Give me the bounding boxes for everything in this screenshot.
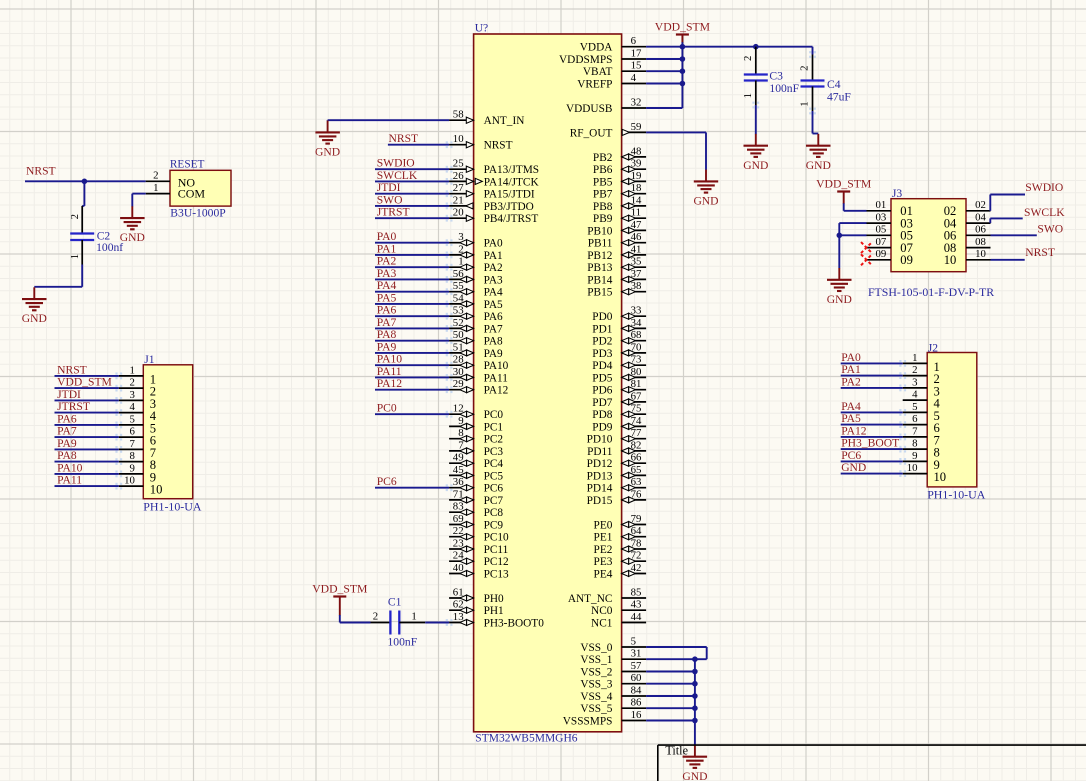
svg-text:PC3: PC3 bbox=[484, 446, 504, 458]
svg-text:GND: GND bbox=[841, 461, 866, 474]
wire PA7 to U? bbox=[375, 327, 449, 329]
svg-text:VREFP: VREFP bbox=[577, 79, 612, 91]
svg-text:PB10: PB10 bbox=[587, 225, 612, 237]
svg-text:02: 02 bbox=[975, 199, 986, 211]
svg-text:PC0: PC0 bbox=[377, 402, 397, 415]
wire U? VDD pin row 2 to rail bbox=[646, 70, 682, 72]
svg-text:44: 44 bbox=[631, 611, 642, 623]
svg-text:PB4/JTRST: PB4/JTRST bbox=[484, 213, 539, 225]
U? pin 78 PE2 bbox=[594, 537, 647, 556]
svg-text:70: 70 bbox=[631, 341, 642, 353]
wire PA9 to J1 pin 7 bbox=[55, 448, 119, 450]
J2 pin 9 bbox=[903, 450, 940, 472]
svg-text:14: 14 bbox=[631, 194, 642, 206]
svg-text:STM32WB5MMGH6: STM32WB5MMGH6 bbox=[475, 733, 577, 745]
svg-text:34: 34 bbox=[631, 317, 642, 329]
wire JTRST to J1 pin 4 bbox=[55, 412, 119, 414]
junction VDD rail row 0 bbox=[680, 44, 686, 50]
connection markers on U? left pins bbox=[446, 141, 453, 626]
U? pin 71 PC7 bbox=[449, 488, 503, 507]
U? pin 84 VSS_4 bbox=[580, 684, 646, 703]
wire GND to J2 pin 10 bbox=[841, 473, 903, 475]
connector J1 body PH1-10-UA bbox=[143, 365, 192, 499]
wire VDD rail to C3/C4 bbox=[682, 46, 812, 48]
svg-text:FTSH-105-01-F-DV-P-TR: FTSH-105-01-F-DV-P-TR bbox=[868, 285, 994, 299]
J3 pin 08 bbox=[944, 236, 991, 255]
svg-text:PB11: PB11 bbox=[588, 238, 613, 250]
svg-text:49: 49 bbox=[453, 452, 464, 464]
U? pin 14 PB8 bbox=[593, 194, 646, 213]
svg-text:ANT_NC: ANT_NC bbox=[568, 593, 613, 605]
svg-text:PD3: PD3 bbox=[592, 348, 612, 360]
svg-text:PA1: PA1 bbox=[377, 242, 397, 255]
svg-text:04: 04 bbox=[975, 212, 986, 224]
U? pin 73 PD4 bbox=[592, 354, 646, 373]
svg-text:5: 5 bbox=[631, 635, 636, 647]
wire VDD_STM to J3 pin 01 bbox=[844, 210, 867, 212]
svg-text:C3: C3 bbox=[769, 70, 783, 83]
svg-text:PA7: PA7 bbox=[377, 316, 397, 329]
wire VSS row pin to bus (row 52) bbox=[646, 683, 695, 685]
svg-text:61: 61 bbox=[453, 586, 464, 598]
svg-text:64: 64 bbox=[631, 525, 642, 537]
svg-text:VDD_STM: VDD_STM bbox=[57, 376, 112, 389]
U? pin 42 PE4 bbox=[594, 562, 647, 581]
svg-text:J2: J2 bbox=[928, 341, 939, 354]
J1 pin 5 bbox=[119, 413, 156, 435]
U? pin 47 PB10 bbox=[587, 219, 646, 238]
svg-text:PA9: PA9 bbox=[377, 340, 397, 353]
J1 pin 10 bbox=[119, 475, 163, 497]
svg-text:PD10: PD10 bbox=[587, 434, 613, 446]
junction at J3 pin 05 bbox=[837, 233, 843, 239]
svg-text:10: 10 bbox=[944, 253, 957, 267]
U? pin 36 PC6 bbox=[449, 476, 503, 495]
wire PA7 to J1 pin 6 bbox=[55, 436, 119, 438]
connector J3 body FTSH-105-01-F-DV-P-TR bbox=[891, 199, 966, 272]
svg-text:PA8: PA8 bbox=[484, 336, 503, 348]
svg-text:PB7: PB7 bbox=[593, 189, 613, 201]
svg-text:VSS_4: VSS_4 bbox=[580, 691, 612, 703]
svg-text:PC6: PC6 bbox=[377, 475, 397, 488]
wire PA0 to U? bbox=[375, 242, 449, 244]
power port VDD_STM at J3 bbox=[816, 178, 872, 211]
U? pin 46 PB11 bbox=[588, 231, 646, 250]
svg-text:PC0: PC0 bbox=[484, 409, 504, 421]
svg-text:PA13/JTMS: PA13/JTMS bbox=[484, 164, 539, 176]
svg-text:PB8: PB8 bbox=[593, 201, 613, 213]
svg-text:PB6: PB6 bbox=[593, 164, 613, 176]
svg-text:PD1: PD1 bbox=[592, 323, 612, 335]
svg-text:09: 09 bbox=[876, 248, 887, 260]
IC U? STM32WB5MMGH6 body bbox=[474, 34, 622, 732]
junction VSS bus row 54 bbox=[692, 705, 698, 711]
svg-text:4: 4 bbox=[631, 72, 637, 84]
capacitor C4 pin 1 lead bbox=[812, 87, 814, 112]
svg-text:56: 56 bbox=[453, 268, 464, 280]
U? pin 59 RF_OUT bbox=[570, 121, 646, 140]
svg-text:GND: GND bbox=[743, 159, 768, 172]
svg-text:13: 13 bbox=[453, 611, 464, 623]
svg-text:23: 23 bbox=[453, 537, 464, 549]
svg-text:PA12: PA12 bbox=[484, 385, 509, 397]
U? pin 28 PA10 bbox=[449, 354, 509, 373]
U? pin 81 PD6 bbox=[592, 378, 646, 397]
svg-text:17: 17 bbox=[631, 47, 642, 59]
U? pin 8 PC2 bbox=[449, 427, 503, 446]
U? pin 76 PD15 bbox=[587, 488, 646, 507]
svg-text:82: 82 bbox=[631, 439, 642, 451]
svg-text:PH3_BOOT: PH3_BOOT bbox=[841, 437, 899, 450]
U? pin 65 PD13 bbox=[587, 464, 646, 483]
svg-text:26: 26 bbox=[453, 170, 464, 182]
ground at switch COM bbox=[120, 206, 145, 244]
svg-text:1: 1 bbox=[69, 254, 81, 259]
U? pin 12 PC0 bbox=[449, 403, 503, 422]
svg-text:18: 18 bbox=[631, 182, 642, 194]
wire SWDIO to U? bbox=[375, 168, 449, 170]
U? pin 13 PH3-BOOT0 bbox=[449, 611, 544, 630]
wire VSS_0 (pin 5) loop bbox=[646, 647, 707, 659]
svg-text:PD13: PD13 bbox=[587, 470, 613, 482]
junction VSS bus row 55 bbox=[692, 718, 698, 724]
svg-text:PC4: PC4 bbox=[484, 458, 504, 470]
svg-text:3: 3 bbox=[912, 376, 917, 388]
svg-text:3: 3 bbox=[129, 389, 134, 401]
svg-text:C1: C1 bbox=[388, 595, 402, 608]
svg-text:PC5: PC5 bbox=[484, 470, 504, 482]
connector J2 body PH1-10-UA bbox=[927, 353, 977, 487]
junction VDD rail row 3 bbox=[680, 81, 686, 87]
svg-text:PA6: PA6 bbox=[377, 304, 397, 317]
junction VSS bus row 52 bbox=[692, 681, 698, 687]
U? pin 83 PC8 bbox=[449, 501, 503, 520]
svg-text:6: 6 bbox=[129, 426, 135, 438]
U? pin 63 PD14 bbox=[587, 476, 646, 495]
svg-text:PB14: PB14 bbox=[587, 274, 612, 286]
J2 pin 8 bbox=[903, 438, 940, 460]
wire VDD rail corner down to C4 bbox=[812, 47, 814, 55]
wire U? VDD pin row 0 to rail bbox=[646, 46, 682, 48]
svg-text:74: 74 bbox=[631, 415, 642, 427]
U? pin 58 ANT_IN bbox=[449, 109, 524, 128]
svg-text:GND: GND bbox=[693, 195, 718, 208]
J2 pin 5 bbox=[903, 401, 940, 423]
svg-text:PA12: PA12 bbox=[377, 377, 403, 390]
wire NRST to J1 pin 1 bbox=[55, 375, 119, 377]
svg-text:43: 43 bbox=[631, 599, 642, 611]
svg-text:PA5: PA5 bbox=[841, 412, 861, 425]
U? pin 56 PA3 bbox=[449, 268, 503, 287]
ground at C3 bbox=[743, 134, 768, 172]
svg-text:PC7: PC7 bbox=[484, 495, 504, 507]
svg-text:NC1: NC1 bbox=[591, 618, 612, 630]
svg-text:PA10: PA10 bbox=[57, 461, 83, 474]
svg-text:SWCLK: SWCLK bbox=[377, 169, 418, 182]
svg-text:PD5: PD5 bbox=[592, 372, 612, 384]
wire C3 pin 1 to GND bbox=[755, 105, 757, 134]
svg-text:83: 83 bbox=[453, 501, 464, 513]
wire PA8 to U? bbox=[375, 340, 449, 342]
wire C1 pin 1 to U? pin 13 bbox=[425, 622, 449, 624]
svg-text:Title: Title bbox=[665, 743, 688, 757]
svg-text:35: 35 bbox=[631, 256, 642, 268]
svg-text:VDDUSB: VDDUSB bbox=[566, 103, 612, 115]
wire SWCLK to U? bbox=[375, 180, 449, 182]
svg-text:2: 2 bbox=[373, 611, 378, 623]
wire VSS row pin to bus (row 50) bbox=[646, 658, 695, 660]
U? pin 54 PA5 bbox=[449, 292, 503, 311]
svg-text:PC8: PC8 bbox=[484, 507, 504, 519]
svg-text:PH0: PH0 bbox=[484, 593, 504, 605]
wire PA10 to U? bbox=[375, 364, 449, 366]
svg-text:27: 27 bbox=[453, 182, 464, 194]
svg-text:85: 85 bbox=[631, 586, 642, 598]
svg-text:2: 2 bbox=[69, 214, 81, 219]
ground at RF_OUT bbox=[693, 170, 718, 208]
svg-text:PA9: PA9 bbox=[57, 437, 77, 450]
svg-text:JTDI: JTDI bbox=[377, 181, 401, 194]
J1 pin 3 bbox=[119, 389, 156, 411]
svg-text:VSS_5: VSS_5 bbox=[580, 703, 612, 715]
svg-text:1: 1 bbox=[742, 93, 754, 98]
svg-text:19: 19 bbox=[631, 170, 642, 182]
J1 pin 9 bbox=[119, 462, 156, 484]
svg-text:9: 9 bbox=[458, 415, 463, 427]
svg-text:PD0: PD0 bbox=[592, 311, 612, 323]
svg-text:6: 6 bbox=[912, 413, 918, 425]
U? pin 37 PB14 bbox=[587, 268, 646, 287]
wire VSS row pin to bus (row 51) bbox=[646, 671, 695, 673]
svg-text:PA1: PA1 bbox=[484, 250, 503, 262]
wire VSS row pin to bus (row 53) bbox=[646, 695, 695, 697]
svg-text:GND: GND bbox=[806, 159, 831, 172]
U? pin 53 PA6 bbox=[449, 305, 503, 324]
wire VDDUSB (pin 32) to rail bbox=[646, 107, 682, 109]
svg-text:07: 07 bbox=[876, 236, 887, 248]
J1 pin 8 bbox=[119, 450, 156, 472]
capacitor C2 pin 2 lead bbox=[81, 206, 83, 234]
svg-text:PD12: PD12 bbox=[587, 458, 613, 470]
wire PA0 to J2 pin 1 bbox=[841, 362, 903, 364]
svg-text:3: 3 bbox=[458, 231, 463, 243]
svg-text:8: 8 bbox=[458, 427, 463, 439]
svg-text:VSSSMPS: VSSSMPS bbox=[563, 716, 613, 728]
wire PA12 to U? bbox=[375, 389, 449, 391]
svg-text:VDDSMPS: VDDSMPS bbox=[559, 54, 612, 66]
U? pin 45 PC5 bbox=[449, 464, 503, 483]
U? pin 39 PB6 bbox=[593, 158, 646, 177]
svg-text:31: 31 bbox=[631, 648, 642, 660]
U? pin 69 PC9 bbox=[449, 513, 503, 532]
svg-text:JTRST: JTRST bbox=[377, 206, 410, 219]
J2 pin 10 bbox=[903, 462, 946, 484]
svg-text:NRST: NRST bbox=[484, 140, 513, 152]
wire C4 pin 1 to GND bbox=[813, 111, 819, 134]
U? pin 68 PD2 bbox=[592, 329, 646, 348]
svg-text:PA12: PA12 bbox=[841, 424, 867, 437]
U? pin 82 PD11 bbox=[587, 439, 646, 458]
svg-text:7: 7 bbox=[912, 425, 918, 437]
svg-text:PA4: PA4 bbox=[377, 279, 397, 292]
wire PA12 to J2 pin 7 bbox=[841, 436, 903, 438]
svg-text:39: 39 bbox=[631, 158, 642, 170]
wire PC0 to U? bbox=[375, 413, 449, 415]
svg-text:2: 2 bbox=[799, 65, 811, 70]
U? pin 38 PB15 bbox=[587, 280, 646, 299]
svg-text:PB5: PB5 bbox=[593, 176, 613, 188]
wire switch COM to GND bbox=[132, 194, 145, 207]
svg-text:PD14: PD14 bbox=[587, 483, 613, 495]
svg-text:2: 2 bbox=[742, 56, 754, 61]
svg-text:SWCLK: SWCLK bbox=[1024, 206, 1065, 219]
wire junction to switch pin 2 bbox=[84, 180, 145, 182]
svg-text:C4: C4 bbox=[827, 78, 841, 91]
U? pin 64 PE1 bbox=[594, 525, 647, 544]
wire PA5 to J2 pin 6 bbox=[841, 424, 903, 426]
svg-text:PE3: PE3 bbox=[594, 556, 613, 568]
svg-text:VDDA: VDDA bbox=[580, 42, 613, 54]
svg-text:PA7: PA7 bbox=[57, 425, 77, 438]
svg-text:PA4: PA4 bbox=[484, 287, 503, 299]
svg-text:7: 7 bbox=[458, 439, 464, 451]
junction VSS bus row 53 bbox=[692, 693, 698, 699]
svg-text:PA3: PA3 bbox=[484, 274, 503, 286]
svg-text:JTDI: JTDI bbox=[57, 388, 81, 401]
U? pin 32 VDDUSB bbox=[566, 96, 646, 115]
U? pin 75 PD8 bbox=[592, 403, 646, 422]
svg-text:GND: GND bbox=[120, 231, 145, 244]
svg-text:PA11: PA11 bbox=[484, 372, 508, 384]
svg-text:8: 8 bbox=[912, 438, 917, 450]
svg-text:62: 62 bbox=[453, 599, 464, 611]
svg-text:6: 6 bbox=[631, 35, 637, 47]
wire PC6 to U? bbox=[375, 487, 449, 489]
capacitor C2 plates bbox=[70, 234, 94, 241]
J2 pin 7 bbox=[903, 425, 940, 447]
wire PA8 to J1 pin 8 bbox=[55, 461, 119, 463]
wire PA2 to U? bbox=[375, 266, 449, 268]
svg-text:1: 1 bbox=[129, 364, 134, 376]
svg-text:53: 53 bbox=[453, 305, 464, 317]
U? pin 9 PC1 bbox=[449, 415, 503, 434]
svg-text:PA2: PA2 bbox=[484, 262, 503, 274]
svg-text:PH3-BOOT0: PH3-BOOT0 bbox=[484, 618, 545, 630]
wire PA10 to J1 pin 9 bbox=[55, 473, 119, 475]
svg-text:COM: COM bbox=[178, 187, 206, 201]
svg-text:PA10: PA10 bbox=[377, 353, 403, 366]
U? pin 22 PC10 bbox=[449, 525, 509, 544]
svg-text:PA8: PA8 bbox=[57, 449, 77, 462]
svg-text:20: 20 bbox=[453, 207, 464, 219]
svg-text:NRST: NRST bbox=[1025, 246, 1055, 259]
wire J3 pin 02 to SWDIO bbox=[990, 195, 1025, 211]
junction VSS bus row 51 bbox=[692, 669, 698, 675]
svg-text:54: 54 bbox=[453, 292, 464, 304]
svg-text:J1: J1 bbox=[144, 353, 155, 366]
wire PA4 to U? bbox=[375, 291, 449, 293]
wire J3 pin 10 to NRST bbox=[991, 259, 1025, 261]
U? pin 26 PA14/JTCK bbox=[449, 170, 474, 185]
svg-text:12: 12 bbox=[453, 403, 464, 415]
svg-text:SWDIO: SWDIO bbox=[377, 157, 415, 170]
J2 pin 2 bbox=[903, 364, 940, 386]
U? pin 10 NRST bbox=[449, 133, 512, 152]
svg-text:PD11: PD11 bbox=[587, 446, 612, 458]
svg-text:PA5: PA5 bbox=[377, 291, 397, 304]
U? pin 19 PB5 bbox=[593, 170, 646, 189]
U? pin 72 PE3 bbox=[594, 550, 647, 569]
svg-text:1: 1 bbox=[411, 611, 416, 623]
svg-text:PA8: PA8 bbox=[377, 328, 397, 341]
wire NRST to U? pin 10 bbox=[388, 144, 449, 146]
svg-text:2: 2 bbox=[153, 170, 158, 182]
connection markers at C4 bbox=[752, 51, 816, 114]
U? pin 55 PA4 bbox=[449, 280, 503, 299]
U? pin 86 VSS_5 bbox=[580, 697, 646, 716]
wire PA6 to J1 pin 5 bbox=[55, 424, 119, 426]
svg-text:32: 32 bbox=[631, 96, 642, 108]
wire RF_OUT (pin 59) to GND bbox=[646, 132, 706, 170]
svg-text:PH1: PH1 bbox=[484, 605, 504, 617]
svg-text:RESET: RESET bbox=[170, 158, 205, 170]
U? pin 30 PA11 bbox=[449, 366, 508, 385]
U? pin 7 PC3 bbox=[449, 439, 503, 458]
svg-text:42: 42 bbox=[631, 562, 642, 574]
wire PA5 to U? bbox=[375, 303, 449, 305]
svg-text:VBAT: VBAT bbox=[583, 66, 613, 78]
svg-text:69: 69 bbox=[453, 513, 464, 525]
svg-text:73: 73 bbox=[631, 354, 642, 366]
wire PH3_BOOT to J2 pin 8 bbox=[841, 448, 903, 450]
J1 pin 2 bbox=[119, 377, 156, 399]
svg-text:10: 10 bbox=[150, 483, 163, 497]
capacitor C1 plates bbox=[390, 611, 399, 635]
U? pin 31 VSS_1 bbox=[580, 648, 646, 667]
U? pin 79 PE0 bbox=[594, 513, 647, 532]
svg-text:52: 52 bbox=[453, 317, 464, 329]
U? pin 2 PA1 bbox=[449, 243, 503, 262]
svg-text:PB13: PB13 bbox=[587, 262, 612, 274]
svg-text:2: 2 bbox=[129, 377, 134, 389]
junction VDD rail row 1 bbox=[680, 56, 686, 62]
svg-text:PA0: PA0 bbox=[484, 238, 503, 250]
J2 pin 1 bbox=[903, 352, 940, 374]
U? pin 43 NC0 bbox=[591, 599, 646, 618]
wire J3 pin 04 to SWCLK bbox=[990, 218, 1022, 223]
svg-text:PC13: PC13 bbox=[484, 569, 509, 581]
junction at C3 bbox=[753, 44, 759, 50]
svg-text:PA6: PA6 bbox=[57, 412, 77, 425]
svg-text:55: 55 bbox=[453, 280, 464, 292]
svg-text:4: 4 bbox=[129, 401, 135, 413]
capacitor C2 pin 1 lead bbox=[81, 240, 83, 265]
U? pin 49 PC4 bbox=[449, 452, 503, 471]
svg-text:PD15: PD15 bbox=[587, 495, 613, 507]
wire VSS row pin to bus (row 55) bbox=[646, 720, 695, 722]
svg-text:PE2: PE2 bbox=[594, 544, 613, 556]
svg-text:75: 75 bbox=[631, 403, 642, 415]
svg-text:68: 68 bbox=[631, 329, 642, 341]
U? pin 5 VSS_0 bbox=[580, 635, 646, 654]
U? pin 57 VSS_2 bbox=[580, 660, 646, 679]
U? pin 50 PA8 bbox=[449, 329, 503, 348]
svg-text:PA2: PA2 bbox=[377, 255, 397, 268]
svg-text:16: 16 bbox=[631, 709, 642, 721]
svg-text:VSS_3: VSS_3 bbox=[580, 679, 612, 691]
J3 pin 03 bbox=[867, 212, 913, 231]
svg-text:09: 09 bbox=[900, 253, 913, 267]
